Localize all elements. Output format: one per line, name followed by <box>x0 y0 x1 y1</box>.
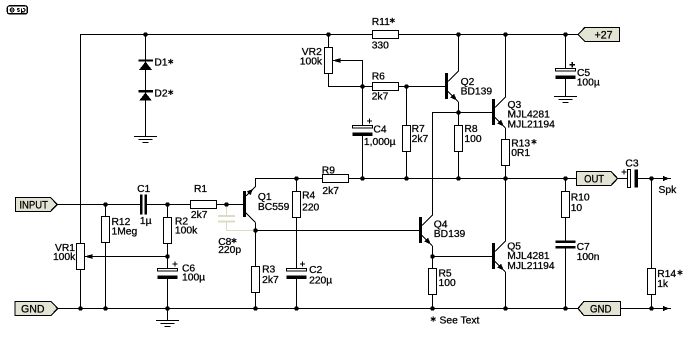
svg-text:D2: D2 <box>154 88 167 99</box>
svg-text:1µ: 1µ <box>140 216 152 227</box>
svg-text:100: 100 <box>439 278 456 289</box>
svg-text:100n: 100n <box>577 252 600 263</box>
svg-text:R1: R1 <box>194 184 207 195</box>
svg-text:BD139: BD139 <box>434 229 466 240</box>
svg-text:INPUT: INPUT <box>19 199 48 211</box>
svg-text:BD139: BD139 <box>461 86 493 97</box>
svg-text:Spk: Spk <box>659 185 678 196</box>
svg-text:220µ: 220µ <box>309 276 332 287</box>
svg-text:C3: C3 <box>625 158 638 169</box>
svg-text:OUT: OUT <box>584 173 604 185</box>
svg-text:MJL21194: MJL21194 <box>507 261 555 272</box>
svg-text:GND: GND <box>590 303 612 315</box>
svg-text:220p: 220p <box>218 245 241 256</box>
svg-text:1k: 1k <box>657 279 669 290</box>
svg-text:R9: R9 <box>322 166 335 177</box>
svg-text:100µ: 100µ <box>182 273 205 284</box>
svg-text:100: 100 <box>464 134 481 145</box>
svg-text:BC559: BC559 <box>258 202 290 213</box>
svg-text:C4: C4 <box>373 125 386 136</box>
svg-text:R6: R6 <box>372 72 385 83</box>
svg-text:0R1: 0R1 <box>511 148 530 159</box>
svg-text:+27: +27 <box>595 29 613 41</box>
svg-text:R4: R4 <box>302 191 315 202</box>
svg-text:1Meg: 1Meg <box>112 226 138 237</box>
svg-text:GND: GND <box>21 303 45 315</box>
svg-text:100k: 100k <box>175 226 198 237</box>
svg-text:2k7: 2k7 <box>322 186 339 197</box>
svg-text:100k: 100k <box>300 56 323 67</box>
svg-text:2k7: 2k7 <box>372 92 389 103</box>
svg-text:2k7: 2k7 <box>412 134 429 145</box>
svg-text:R11: R11 <box>372 17 390 28</box>
svg-text:D1: D1 <box>154 58 167 69</box>
svg-text:10: 10 <box>571 203 583 214</box>
svg-text:See Text: See Text <box>440 316 480 327</box>
svg-text:100µ: 100µ <box>577 78 600 89</box>
svg-text:R10: R10 <box>571 192 590 203</box>
svg-text:1,000µ: 1,000µ <box>364 137 396 148</box>
svg-text:C1: C1 <box>137 184 150 195</box>
svg-text:100k: 100k <box>53 252 76 263</box>
svg-text:2k7: 2k7 <box>191 210 208 221</box>
svg-text:2k7: 2k7 <box>262 275 279 286</box>
svg-text:330: 330 <box>372 41 389 52</box>
svg-text:220: 220 <box>302 202 319 213</box>
svg-text:MJL21194: MJL21194 <box>508 119 556 130</box>
